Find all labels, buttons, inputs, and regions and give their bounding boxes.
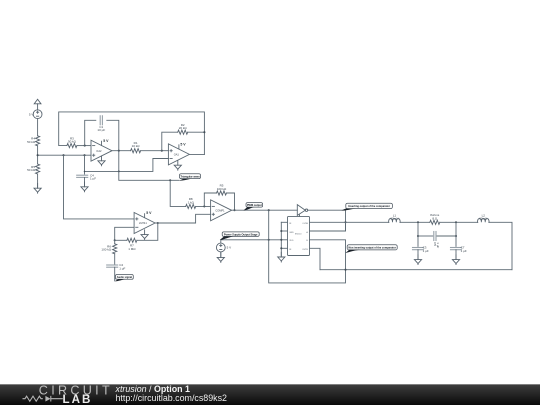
inductor L1 60uH bbox=[389, 213, 401, 222]
svg-text:5 V: 5 V bbox=[103, 139, 109, 143]
resistor R7 1M bbox=[127, 238, 137, 251]
svg-text:Audio signal: Audio signal bbox=[117, 275, 133, 279]
svg-text:Power Supply Output Stage: Power Supply Output Stage bbox=[224, 232, 258, 236]
wire R7 run bbox=[115, 239, 127, 241]
svg-text:OA1: OA1 bbox=[174, 153, 180, 157]
wire inverter output bbox=[308, 210, 346, 231]
wire R4 to R5 bbox=[37, 146, 39, 164]
svg-text:1 µF: 1 µF bbox=[436, 242, 440, 248]
svg-text:60 µH: 60 µH bbox=[479, 217, 487, 221]
resistor R1 10k bbox=[131, 141, 141, 153]
svg-text:5 V: 5 V bbox=[146, 211, 152, 215]
wire C2 to audio flag bbox=[114, 267, 116, 281]
wire R5 to ground bbox=[37, 174, 39, 188]
svg-text:B: B bbox=[306, 240, 308, 242]
voltage source V2 5V bbox=[216, 243, 231, 252]
wire node A cap branch bbox=[417, 222, 419, 246]
wire C7 to ground bbox=[455, 250, 457, 260]
ground C4 bbox=[81, 182, 88, 192]
wire C3 to ground bbox=[417, 250, 419, 260]
wire PWM to bottom loop bbox=[269, 210, 346, 283]
capacitor C3 1uF bbox=[413, 246, 429, 253]
svg-text:5 V: 5 V bbox=[227, 246, 232, 250]
svg-text:10 kΩ: 10 kΩ bbox=[132, 144, 141, 148]
resistor R5 50k bbox=[27, 164, 40, 174]
svg-text:5 V: 5 V bbox=[29, 112, 34, 116]
wire R6 to C2 bbox=[114, 254, 116, 265]
resistor R4 50k bbox=[27, 136, 40, 146]
op-amp LM741 bbox=[134, 211, 155, 233]
svg-text:50 kΩ: 50 kΩ bbox=[27, 168, 36, 172]
flag Inverting output of the comparator bbox=[341, 203, 392, 210]
svg-text:1 µF: 1 µF bbox=[423, 249, 429, 253]
CircuitLab logo resistor symbol bbox=[23, 396, 43, 401]
wire C4 branch bbox=[84, 155, 86, 174]
wire OA1 output bbox=[189, 153, 204, 155]
gate driver chip U1 bbox=[288, 216, 310, 255]
power supply arrow bbox=[34, 99, 41, 109]
svg-text:8 Ω: 8 Ω bbox=[432, 216, 438, 220]
wire LM741 output to COMP1 plus bbox=[155, 214, 211, 223]
wire R5 feedback loop bbox=[204, 193, 216, 206]
resistor R6 100k bbox=[101, 240, 116, 254]
resistor R9 8 ohm load bbox=[430, 213, 440, 224]
wire C1 loop bbox=[85, 120, 96, 145]
ground C7 bbox=[452, 255, 459, 265]
wire V1 to R4 bbox=[37, 119, 39, 136]
wire chip row3 to non-inverting drop bbox=[310, 240, 346, 270]
svg-text:50 kΩ: 50 kΩ bbox=[27, 140, 36, 144]
flag Non inverting output of the comparator bbox=[346, 245, 398, 253]
inductor L2 60uH bbox=[478, 213, 490, 222]
svg-text:1 µF: 1 µF bbox=[461, 249, 467, 253]
wire filter main line bbox=[346, 221, 389, 223]
wire to comparator input resistor bbox=[170, 180, 186, 206]
svg-text:Non inverting output of the co: Non inverting output of the comparator bbox=[348, 246, 395, 250]
inverter U2 bbox=[297, 205, 307, 217]
svg-text:1 kΩ: 1 kΩ bbox=[188, 200, 195, 204]
wire triangle signal drop bbox=[119, 151, 179, 181]
svg-text:A: A bbox=[306, 231, 308, 234]
resistor R3 50k bbox=[67, 136, 77, 147]
resistor R2 20k bbox=[178, 123, 188, 134]
wire L2 to right edge down bbox=[489, 222, 512, 269]
wire R7 to LM741 output bbox=[137, 223, 158, 240]
ground LM741 bbox=[141, 230, 148, 240]
flag Power Supply Output Stage bbox=[220, 232, 259, 240]
wire bias to LM741 plus bbox=[64, 155, 135, 219]
wire OA2 output bbox=[112, 150, 131, 152]
resistor R8 1k bbox=[186, 197, 196, 208]
capacitor C7 1uF bbox=[451, 246, 467, 253]
svg-text:100 kΩ: 100 kΩ bbox=[101, 248, 111, 252]
svg-text:1 µF: 1 µF bbox=[119, 266, 125, 270]
wire series cap link bbox=[418, 235, 433, 237]
CircuitLab logo diode symbol bbox=[45, 396, 50, 402]
wire bottom return line bbox=[320, 269, 512, 271]
svg-text:GND: GND bbox=[289, 232, 294, 234]
wire chip row2 stub bbox=[310, 222, 346, 231]
wire L1 to node A bbox=[400, 221, 430, 223]
wire LM741 minus input bbox=[115, 227, 134, 240]
wire R2 loop bbox=[162, 132, 178, 151]
wire COMP1 output PWM line bbox=[232, 209, 298, 211]
svg-text:20 kΩ: 20 kΩ bbox=[179, 126, 188, 130]
wire C1 to OA2 output bbox=[107, 120, 119, 150]
wire R8 to COMP1 minus bbox=[196, 205, 211, 207]
svg-text:OUTB: OUTB bbox=[302, 249, 308, 251]
svg-text:10 µF: 10 µF bbox=[97, 128, 105, 132]
wire node B cap branch bbox=[455, 222, 457, 246]
svg-text:1 MΩ: 1 MΩ bbox=[128, 247, 136, 251]
wire 2.5V ref to OA1 inverting input bbox=[85, 159, 169, 172]
ground V2 bbox=[217, 253, 224, 263]
wire C5 to node B bbox=[437, 235, 456, 237]
wire chip left pins bbox=[280, 222, 287, 256]
svg-text:60 µH: 60 µH bbox=[390, 217, 398, 221]
comparator COMP1 bbox=[211, 200, 232, 221]
op-amp OA2 integrator bbox=[91, 139, 112, 161]
wire C4 to ground bbox=[84, 177, 86, 186]
capacitor C2 1uF bbox=[107, 263, 126, 270]
flag Triangular wave bbox=[179, 174, 201, 181]
flag Audio signal bbox=[115, 275, 134, 282]
wire V2 to chip VDD bbox=[221, 240, 281, 243]
svg-text:1 µF: 1 µF bbox=[90, 177, 96, 181]
svg-text:IN: IN bbox=[289, 223, 292, 225]
capacitor C1 10uF bbox=[97, 116, 105, 132]
op-amp OA1 schmitt bbox=[168, 143, 189, 165]
wire load to node B bbox=[440, 221, 478, 223]
svg-text:IR2110: IR2110 bbox=[295, 234, 302, 236]
ground chip bbox=[278, 252, 285, 262]
wire V2 to ground bbox=[220, 252, 222, 257]
node 2.5V divider line bbox=[38, 154, 91, 156]
resistor R5 100k bbox=[217, 184, 228, 195]
svg-text:100 kΩ: 100 kΩ bbox=[217, 187, 227, 191]
svg-text:OUTA: OUTA bbox=[302, 222, 308, 225]
svg-text:IN: IN bbox=[289, 249, 292, 251]
wire outer feedback loop OA1 out to R3 bbox=[59, 112, 205, 154]
wire R5 to COMP1 output bbox=[227, 193, 235, 210]
voltage source V1 5V bbox=[29, 110, 42, 119]
svg-text:LAB: LAB bbox=[63, 393, 93, 405]
ground divider bbox=[34, 183, 41, 193]
svg-text:VDD: VDD bbox=[289, 240, 294, 242]
svg-text:Triangular wave: Triangular wave bbox=[180, 174, 200, 178]
svg-text:Inverting output of the compar: Inverting output of the comparator bbox=[348, 204, 390, 208]
flag PWM output bbox=[243, 203, 262, 211]
svg-text:50 kΩ: 50 kΩ bbox=[68, 140, 77, 144]
ground C3 bbox=[414, 255, 421, 265]
ground OA1 bbox=[174, 160, 181, 170]
wire R2 to output column bbox=[188, 131, 205, 133]
capacitor C4 1uF bbox=[77, 173, 97, 180]
svg-text:OA2: OA2 bbox=[96, 149, 102, 153]
svg-text:COMP1: COMP1 bbox=[215, 208, 225, 212]
wire R3 to OA2 inverting input bbox=[77, 145, 91, 147]
svg-text:LM741: LM741 bbox=[139, 221, 147, 225]
svg-text:5 V: 5 V bbox=[180, 143, 186, 147]
wire chip OUTB to return bbox=[310, 248, 321, 269]
svg-text:PWM output: PWM output bbox=[247, 203, 262, 207]
wire R1 to OA1 plus bbox=[141, 150, 169, 152]
ground OA2 bbox=[98, 156, 105, 166]
capacitor C5 1uF series bbox=[433, 232, 440, 249]
wire chip OUTA row to filter bbox=[310, 221, 346, 223]
